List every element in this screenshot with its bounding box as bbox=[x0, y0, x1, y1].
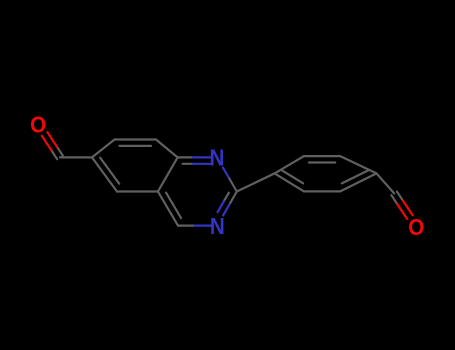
double bond C4p=C5p inner bbox=[342, 170, 369, 184]
bond N1-C2 bbox=[223, 168, 229, 179]
double bond C4=C4a inner bbox=[166, 193, 181, 218]
double bond C11=O1 bbox=[47, 132, 58, 148]
double bond C7=C8 inner bbox=[120, 145, 152, 147]
svg-text:N: N bbox=[210, 144, 225, 171]
bond C4a-C8a bbox=[158, 157, 178, 191]
double bond C6p=C1p bbox=[275, 173, 304, 191]
bond C6-C7 bbox=[92, 140, 115, 158]
double bond C5=C6 bbox=[92, 157, 117, 191]
double bond C4p=C5p bbox=[340, 173, 376, 191]
bond C4p-C12 bbox=[377, 173, 395, 193]
double bond C2=N3 inner bbox=[224, 193, 229, 202]
bond N3-C4 bbox=[193, 225, 211, 227]
svg-text:N: N bbox=[210, 213, 225, 240]
double bond C2=N3 bbox=[229, 192, 236, 205]
bond C1p-C2p bbox=[275, 156, 304, 173]
bond C4a-C5 bbox=[117, 190, 158, 192]
bond C8-C8a bbox=[156, 140, 178, 158]
bond C3p-C4p bbox=[340, 156, 376, 173]
double bond C12=O2 bbox=[396, 203, 407, 219]
double bond C4=C4a bbox=[158, 192, 178, 226]
double bond C2p=C3p bbox=[304, 155, 340, 157]
bond C11-C6 bbox=[60, 156, 92, 158]
bond C5p-C6p bbox=[304, 190, 340, 192]
double bond C8a=N1 inner bbox=[183, 163, 193, 165]
svg-text:O: O bbox=[408, 214, 424, 241]
double bond C8a=N1 bbox=[178, 156, 193, 158]
double bond C7=C8 bbox=[115, 138, 157, 140]
double bond C5=C6 inner bbox=[100, 158, 119, 184]
double bond C6p=C1p inner bbox=[282, 171, 303, 184]
bond C2-C1p bbox=[237, 173, 275, 191]
svg-text:O: O bbox=[30, 111, 46, 138]
double bond C2p=C3p inner bbox=[309, 161, 335, 163]
